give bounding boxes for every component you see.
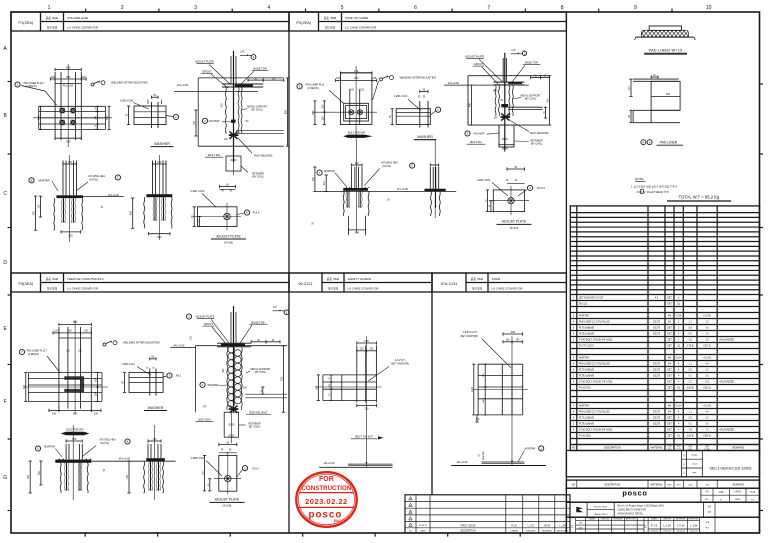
svg-text:750: 750 (281, 376, 284, 381)
svg-text:SS275: SS275 (653, 417, 661, 420)
svg-text:BASE TOP: BASE TOP (254, 66, 267, 70)
svg-text:MORTAR: MORTAR (324, 170, 335, 173)
svg-text:도: 도 (683, 472, 685, 475)
P3 anchor elevation right (127, 425, 165, 500)
svg-text:P1(2EA): P1(2EA) (18, 20, 33, 25)
second description header row (566, 480, 759, 488)
svg-text:PAD LINER W=15: PAD LINER W=15 (649, 49, 683, 53)
svg-text:BASE TOP: BASE TOP (525, 61, 538, 65)
panel divider vertical P2/right-column (565, 12, 567, 533)
svg-text:D: D (3, 260, 7, 266)
P1 plan dimension 400 left (37, 106, 43, 129)
P1 plan anchor bolts (60, 108, 76, 125)
svg-text:SS275: SS275 (653, 327, 661, 330)
svg-text:SS275: SS275 (653, 363, 661, 366)
svg-text:APPROVED: APPROVED (557, 529, 568, 532)
svg-text:DATE: DATE (420, 529, 426, 532)
P2 adjust plate detail (477, 166, 529, 215)
P1 elevation right dims (194, 78, 289, 146)
svg-text:DESCRIPTION: DESCRIPTION (460, 530, 476, 532)
svg-text:L.J.W: L.J.W (690, 524, 698, 528)
svg-text:MAT'ERIAL: MAT'ERIAL (650, 447, 663, 450)
svg-text:0.024: 0.024 (676, 406, 683, 408)
P3 sleeve pipe detail (196, 412, 261, 443)
svg-text:Ø150: Ø150 (231, 159, 238, 162)
svg-text:(BY CIVIL): (BY CIVIL) (251, 109, 263, 112)
svg-text:설비 名칭: 설비 名칭 (325, 25, 336, 29)
svg-text:(S=1/8): (S=1/8) (224, 240, 233, 244)
svg-text:Ø150: Ø150 (228, 423, 235, 426)
svg-text:750: 750 (27, 474, 30, 479)
svg-text:TOTAL W.T = 95.2 Kg: TOTAL W.T = 95.2 Kg (679, 195, 720, 200)
svg-text:2023.02.22: 2023.02.22 (305, 497, 348, 506)
svg-text:PAD LINER 12.7x76x76x150: PAD LINER 12.7x76x76x150 (579, 411, 611, 414)
svg-text:H9.1: H9.1 (176, 375, 182, 378)
svg-text:P.J.S: P.J.S (651, 524, 658, 528)
svg-text:1/4": 1/4" (493, 117, 497, 120)
svg-text:REMARKS: REMARKS (733, 483, 745, 486)
svg-text:210002 BELT CONVEYOR: 210002 BELT CONVEYOR (618, 508, 647, 511)
svg-text:Ø150: Ø150 (502, 148, 509, 151)
svg-text:3/4"x650L-4EA: 3/4"x650L-4EA (88, 175, 105, 178)
svg-text:SET: SET (667, 388, 672, 390)
svg-text:PLT5.2x85x80: PLT5.2x85x80 (579, 417, 595, 420)
svg-text:STUD BOLT, F/W,3N 3/4"x650L: STUD BOLT, F/W,3N 3/4"x650L (579, 429, 613, 432)
svg-text:▾FL+0.00: ▾FL+0.00 (173, 343, 185, 347)
svg-text:REVIEWED: REVIEWED (542, 530, 553, 532)
svg-text:REMARKS: REMARKS (732, 447, 744, 450)
svg-text:GROUT: GROUT (202, 69, 212, 73)
P1 WASHER label (151, 142, 174, 147)
svg-text:설비 名칭: 설비 名칭 (328, 286, 339, 290)
svg-text:BOLT FOR W/P: BOLT FOR W/P (348, 132, 365, 135)
svg-text:1-Ø23.4 DIA: 1-Ø23.4 DIA (120, 100, 134, 103)
svg-text:品名 ITEM: 品名 ITEM (46, 16, 58, 20)
svg-text:(0.114): (0.114) (704, 406, 711, 408)
svg-text:1-Ø25.4 DIA: 1-Ø25.4 DIA (191, 457, 205, 460)
svg-text:300: 300 (68, 233, 73, 237)
P3 bolt arrow symbol (61, 429, 90, 436)
svg-text:GALVANIZED: GALVANIZED (719, 339, 734, 342)
svg-text:SET: SET (667, 430, 672, 432)
svg-text:350: 350 (72, 437, 77, 441)
svg-text:(190.8): (190.8) (686, 388, 694, 390)
P3 anchor elevation left (27, 425, 176, 500)
P3 elevation right dims (246, 340, 288, 412)
svg-text:5: 5 (410, 499, 411, 501)
90-2121 bracket plan (316, 336, 382, 408)
svg-text:C: C (3, 191, 7, 197)
P3 grout spring hatch (227, 346, 242, 410)
P3 welding note (103, 341, 160, 347)
svg-text:'23.02.22: '23.02.22 (650, 531, 659, 533)
svg-text:SS275: SS275 (653, 333, 661, 336)
svg-text:J.X.W: J.X.W (677, 524, 685, 528)
svg-text:MORTAR: MORTAR (482, 451, 485, 460)
svg-text:1/30: 1/30 (719, 491, 724, 494)
57A-2131 mortar leader circle 1 (518, 446, 544, 462)
svg-text:23.02.22: 23.02.22 (419, 525, 428, 527)
svg-text:EA: EA (668, 363, 672, 366)
P1 adjust plate circle 6 label (237, 210, 260, 215)
svg-text:Ø23.4 DIA: Ø23.4 DIA (470, 141, 482, 144)
svg-text:P3(3EA): P3(3EA) (18, 281, 33, 286)
svg-text:REVIEWED: REVIEWED (613, 519, 623, 521)
svg-text:10.2: 10.2 (705, 382, 710, 384)
svg-text:NO: NO (572, 484, 576, 486)
svg-text:Q'TY: Q'TY (677, 484, 682, 486)
P3 pad liner leader label (19, 349, 60, 372)
svg-text:(196.8): (196.8) (686, 436, 694, 438)
P3 WASHER label (144, 406, 167, 411)
svg-text:Ø22: Ø22 (493, 91, 498, 93)
svg-text:品名 ITEM: 品名 ITEM (46, 277, 58, 281)
svg-text:설비 名칭: 설비 名칭 (472, 286, 483, 290)
svg-text:NO.: NO. (705, 499, 709, 501)
P3 washer leader circle 3 (163, 373, 182, 378)
svg-text:WELDING AFTER ADJUSTING: WELDING AFTER ADJUSTING (111, 81, 148, 85)
revision table (405, 495, 570, 533)
svg-text:300: 300 (66, 75, 71, 79)
P2 base elevation detail (444, 53, 550, 151)
svg-text:G: G (3, 475, 7, 481)
svg-text:1-Ø21.4 DIA: 1-Ø21.4 DIA (394, 95, 408, 98)
svg-text:2-5/8"(2-1/2"): 2-5/8"(2-1/2") (463, 331, 478, 334)
svg-text:F: F (4, 399, 7, 405)
PAD LINER W=15 label (644, 49, 687, 55)
svg-text:(SET ANCHOR): (SET ANCHOR) (391, 363, 409, 366)
svg-text:品名 ITEM: 品名 ITEM (327, 277, 339, 281)
grid ticks bottom edge (85, 533, 520, 537)
svg-text:0.026: 0.026 (676, 316, 683, 318)
svg-text:SAFETY GUARD: SAFETY GUARD (348, 277, 372, 281)
90-2121 section label (351, 435, 384, 440)
svg-text:250: 250 (354, 76, 359, 80)
svg-text:STUD BOLT, F/W,3N 7/8"x750L: STUD BOLT, F/W,3N 7/8"x750L (579, 381, 613, 384)
svg-text:STAIR: STAIR (492, 277, 501, 281)
svg-text:P1 (H-150): P1 (H-150) (579, 435, 591, 438)
svg-text:DRAWN: DRAWN (651, 518, 658, 521)
P1 anchor elevation left (33, 155, 124, 242)
svg-text:STUD BOLT, F/W,3N 3/4"x650L: STUD BOLT, F/W,3N 3/4"x650L (579, 339, 613, 342)
svg-text:PLT8.1x80x80: PLT8.1x80x80 (579, 375, 595, 378)
svg-text:JPE001 PROJ: JPE001 PROJ (594, 514, 608, 516)
P3 base elevation detail (170, 306, 287, 412)
svg-text:700: 700 (354, 69, 359, 73)
P1 ADJUST PLATE label (211, 234, 246, 244)
svg-text:ADJUST PLATE: ADJUST PLATE (195, 60, 214, 64)
svg-text:(2): (2) (677, 388, 680, 390)
svg-text:(SET ANCHOR): (SET ANCHOR) (460, 335, 478, 338)
P3 bottom anchor weld X (202, 405, 271, 414)
P2 plan bolt symbols (349, 110, 363, 115)
svg-text:ANCHOR: ANCHOR (474, 133, 485, 136)
svg-text:L.J.W: L.J.W (663, 524, 671, 528)
svg-text:(0.114): (0.114) (704, 358, 711, 360)
P2 WASHER label (414, 135, 436, 140)
P3 elevation labels (173, 314, 271, 390)
svg-text:▾FL+0.00: ▾FL+0.00 (177, 83, 189, 87)
svg-text:Ø150: Ø150 (502, 138, 509, 141)
svg-text:EA: EA (668, 321, 672, 324)
svg-text:DESCRIPTION: DESCRIPTION (604, 484, 620, 486)
svg-text:1: 1 (410, 525, 411, 527)
P1 plan dimension 560 (55, 65, 81, 71)
57A-2131 stair base plan (473, 336, 528, 420)
90-2121 set anchor label (368, 359, 409, 381)
svg-text:SET: SET (667, 418, 672, 420)
svg-text:NO: NO (572, 448, 576, 450)
svg-text:No.: No. (409, 530, 413, 532)
svg-text:MORTAR: MORTAR (579, 315, 589, 318)
svg-text:TACK WELDING: TACK WELDING (530, 132, 549, 135)
svg-text:SET: SET (667, 328, 672, 330)
svg-text:GROUT: GROUT (204, 322, 214, 326)
panel divider vertical P1/P2 (288, 12, 290, 533)
svg-text:TRESTLE C150x75x6.5/10: TRESTLE C150x75x6.5/10 (67, 277, 104, 281)
svg-text:3: 3 (194, 5, 197, 11)
svg-text:CONSTRUCTION: CONSTRUCTION (301, 485, 351, 492)
P1 adjust plate detail (191, 183, 241, 230)
svg-text:'23.02.22: '23.02.22 (689, 531, 698, 533)
P3 channel section (64, 376, 84, 392)
svg-text:PAD LINER 12.7x76x76x100: PAD LINER 12.7x76x76x100 (579, 363, 611, 366)
svg-text:2-Ø21.4 DIA: 2-Ø21.4 DIA (191, 190, 205, 193)
svg-text:▾FL+0.00: ▾FL+0.00 (119, 457, 131, 461)
svg-text:'23.02.22: '23.02.22 (676, 531, 685, 533)
P1 washer detail (134, 100, 166, 129)
panel 57A-2131 header (432, 273, 566, 292)
svg-text:SET: SET (667, 304, 672, 306)
svg-text:GROUT: GROUT (474, 62, 484, 66)
P3 adjust plate detail (191, 441, 241, 494)
P2 ADJUST PLATE label (497, 220, 532, 230)
svg-text:SET: SET (667, 376, 672, 378)
svg-text:600: 600 (130, 210, 133, 215)
svg-text:4: 4 (268, 5, 271, 11)
57A-2131 ground line (451, 420, 546, 466)
grid column numbers top (48, 5, 712, 12)
svg-text:57A-2131: 57A-2131 (441, 281, 458, 286)
P2 plan view (313, 66, 378, 140)
svg-text:5: 5 (341, 5, 344, 11)
svg-text:450: 450 (33, 210, 36, 215)
P1 plan dimensions 125 300 125 (50, 75, 86, 81)
P1 washer dims (120, 94, 158, 125)
svg-text:GALVANIZED: GALVANIZED (719, 429, 734, 432)
svg-text:PAD LINER 12.7x76x76x100: PAD LINER 12.7x76x76x100 (579, 321, 611, 324)
svg-text:▾FL+0.00: ▾FL+0.00 (457, 460, 469, 464)
svg-text:400: 400 (37, 115, 41, 120)
svg-text:WASHER: WASHER (148, 406, 164, 410)
svg-text:L.J.W: L.J.W (528, 524, 535, 527)
title block project band (566, 502, 759, 517)
parts table header row (570, 444, 759, 451)
svg-text:▾FL+0.00: ▾FL+0.00 (324, 461, 336, 465)
pad liner section figure (629, 75, 680, 123)
svg-text:(178.8): (178.8) (686, 346, 694, 348)
svg-text:E&C: E&C (334, 519, 342, 523)
90-2121 dims (316, 339, 376, 411)
svg-text:100: 100 (94, 412, 99, 415)
posco logo band (566, 488, 759, 502)
svg-text:MORTAR: MORTAR (525, 448, 536, 451)
P1 left elevation labels (29, 175, 121, 197)
svg-text:(BY CIVIL): (BY CIVIL) (252, 176, 264, 179)
svg-text:400: 400 (511, 330, 516, 334)
svg-text:▾FL+0.00: ▾FL+0.00 (448, 81, 460, 85)
drawing number block (566, 451, 759, 477)
svg-text:SET: SET (667, 346, 672, 348)
svg-text:12.7: 12.7 (629, 85, 631, 90)
P1 elevation weld flag and circle 1 (240, 51, 256, 60)
svg-text:Ø150: Ø150 (228, 434, 235, 437)
svg-text:150: 150 (666, 93, 671, 96)
svg-text:SET ANCHOR 1/2"x5T: SET ANCHOR 1/2"x5T (579, 297, 604, 300)
svg-text:(0.078): (0.078) (703, 316, 711, 318)
svg-text:APPROVED: APPROVED (689, 518, 700, 521)
svg-text:T.W: T.W (705, 484, 708, 486)
P2 anchor elevation right (425, 140, 446, 218)
svg-text:(281.6): (281.6) (703, 388, 711, 390)
svg-text:ADJUST PLATE: ADJUST PLATE (196, 314, 215, 318)
svg-text:2: 2 (121, 5, 124, 11)
P2 left elevation labels (317, 161, 415, 200)
svg-text:6: 6 (414, 5, 417, 11)
svg-text:0.034: 0.034 (676, 358, 683, 360)
svg-text:90-2121: 90-2121 (298, 281, 312, 286)
svg-text:ANCHOR: ANCHOR (209, 120, 220, 123)
svg-text:EA: EA (668, 411, 672, 414)
svg-text:PLT8.1x80x80: PLT8.1x80x80 (579, 333, 595, 336)
svg-text:9: 9 (634, 5, 637, 11)
svg-text:125: 125 (51, 76, 56, 79)
svg-text:SS275: SS275 (653, 321, 661, 324)
svg-text:DRAWN: DRAWN (589, 518, 596, 521)
svg-text:4: 4 (410, 505, 411, 507)
svg-text:TAKE UP GUIDE: TAKE UP GUIDE (345, 16, 368, 20)
svg-text:PL5.9: PL5.9 (253, 212, 260, 215)
svg-text:430: 430 (66, 139, 71, 143)
svg-text:品名 ITEM: 品名 ITEM (471, 277, 483, 281)
svg-text:SET: SET (667, 340, 672, 342)
svg-text:(393.6): (393.6) (703, 436, 711, 438)
svg-text:LU CAKE CONVEYOR: LU CAKE CONVEYOR (345, 26, 377, 30)
svg-text:(S=1/3): (S=1/3) (510, 226, 519, 230)
svg-text:(2): (2) (677, 436, 680, 438)
svg-text:58-2121: 58-2121 (579, 303, 588, 306)
svg-text:(2): (2) (677, 304, 680, 306)
svg-text:WASHER: WASHER (417, 135, 433, 139)
pad liner mound figure (634, 26, 698, 40)
svg-text:2-1/2"(2"): 2-1/2"(2") (395, 359, 406, 362)
svg-text:8: 8 (561, 5, 564, 11)
svg-text:(S=1/8): (S=1/8) (223, 504, 232, 508)
svg-text:3/4"x600L-4EA: 3/4"x600L-4EA (381, 161, 398, 164)
svg-text:BELT T/R W.P: BELT T/R W.P (355, 435, 373, 439)
svg-text:NOTE:: NOTE: (635, 177, 644, 181)
P2 mid anchor weld X (493, 114, 510, 121)
pad liner name label circles 4 5 (641, 140, 683, 146)
svg-text:WELDING AFTER ADJUSTING: WELDING AFTER ADJUSTING (123, 341, 160, 345)
svg-text:J.R.W: J.R.W (544, 524, 551, 527)
P2 washer detail (390, 88, 430, 127)
svg-text:125: 125 (82, 76, 87, 79)
svg-text:(2 REQ'D): (2 REQ'D) (307, 87, 318, 90)
svg-text:SET: SET (667, 298, 672, 300)
svg-text:LU CAKE CONVEYOR: LU CAKE CONVEYOR (67, 26, 99, 30)
svg-text:SS275: SS275 (653, 411, 661, 414)
svg-text:appr: appr (692, 472, 696, 474)
svg-text:1/4": 1/4" (273, 306, 277, 309)
svg-text:(BY CIVIL): (BY CIVIL) (525, 98, 537, 101)
svg-text:SIDE WELDING: SIDE WELDING (249, 412, 267, 415)
svg-text:1. 철구조물은 현장 실측후 제작 요망 TYP. 9: 1. 철구조물은 현장 실측후 제작 요망 TYP. 9 (631, 184, 678, 188)
svg-text:240: 240 (355, 231, 360, 235)
svg-text:MORTAR: MORTAR (579, 405, 589, 408)
svg-text:1/4": 1/4" (224, 138, 228, 141)
P3 ADJUST PLATE label (210, 498, 245, 508)
svg-text:설비 名칭: 설비 名칭 (47, 25, 58, 29)
title block signature band (566, 517, 759, 533)
svg-text:FIRST ISSUE: FIRST ISSUE (461, 524, 476, 527)
svg-text:SS275: SS275 (653, 369, 661, 372)
svg-text:설비 名칭: 설비 名칭 (47, 286, 58, 290)
P1 sleeve pipe detail (205, 138, 273, 179)
svg-text:7/8": 7/8" (202, 405, 206, 408)
svg-text:CHECKED: CHECKED (663, 519, 672, 521)
svg-text:(357.6): (357.6) (703, 346, 711, 348)
svg-text:PLT9.0x85x80: PLT9.0x85x80 (579, 327, 595, 330)
svg-text:TACK WELDING: TACK WELDING (254, 155, 273, 158)
P2 plan dims 125 250 125 (336, 76, 377, 91)
P1 plan dimensions right 130 300 130 500 (96, 106, 111, 129)
panel divider horizontal top/bottom (11, 272, 566, 274)
svg-text:WELDING AFTER ADJUSTING: WELDING AFTER ADJUSTING (400, 75, 437, 79)
svg-text:ADJUST PLATE: ADJUST PLATE (216, 234, 241, 238)
svg-text:(N,P,W): (N,P,W) (382, 165, 391, 168)
P2 pad liner leader label (297, 84, 344, 104)
svg-text:CHECKED: CHECKED (601, 519, 610, 521)
svg-text:430: 430 (73, 412, 78, 415)
P3 adjust plate circle 6 label (237, 466, 260, 477)
parts list rows text (573, 297, 734, 438)
svg-text:550: 550 (73, 320, 78, 324)
parts list table (570, 206, 759, 451)
svg-text:check: check (692, 463, 697, 465)
P3 left elevation labels (35, 439, 130, 461)
svg-text:BOLT FOR W/P: BOLT FOR W/P (66, 429, 83, 432)
svg-text:COLUMN H150: COLUMN H150 (67, 16, 88, 20)
svg-text:(BY CIVIL): (BY CIVIL) (531, 143, 543, 146)
panel P2 header (289, 12, 566, 31)
svg-text:PL9.0: PL9.0 (252, 467, 259, 470)
P1 plan view (33, 64, 112, 147)
svg-text:SET: SET (667, 382, 672, 384)
FOR CONSTRUCTION red stamp (296, 472, 356, 527)
total weight label (667, 195, 731, 201)
svg-text:SS275: SS275 (653, 423, 661, 426)
P2 anchor labels (465, 121, 549, 153)
grid ticks right edge (760, 84, 764, 511)
svg-text:560: 560 (66, 65, 71, 69)
P2 welding note (373, 75, 437, 99)
svg-text:ADJUST PLATE: ADJUST PLATE (465, 54, 484, 58)
P3 washer leader circle 1 (200, 382, 227, 387)
P2 section cut symbol (343, 132, 372, 138)
grid row letters left (3, 46, 11, 511)
svg-text:CHECKED: CHECKED (526, 530, 536, 532)
